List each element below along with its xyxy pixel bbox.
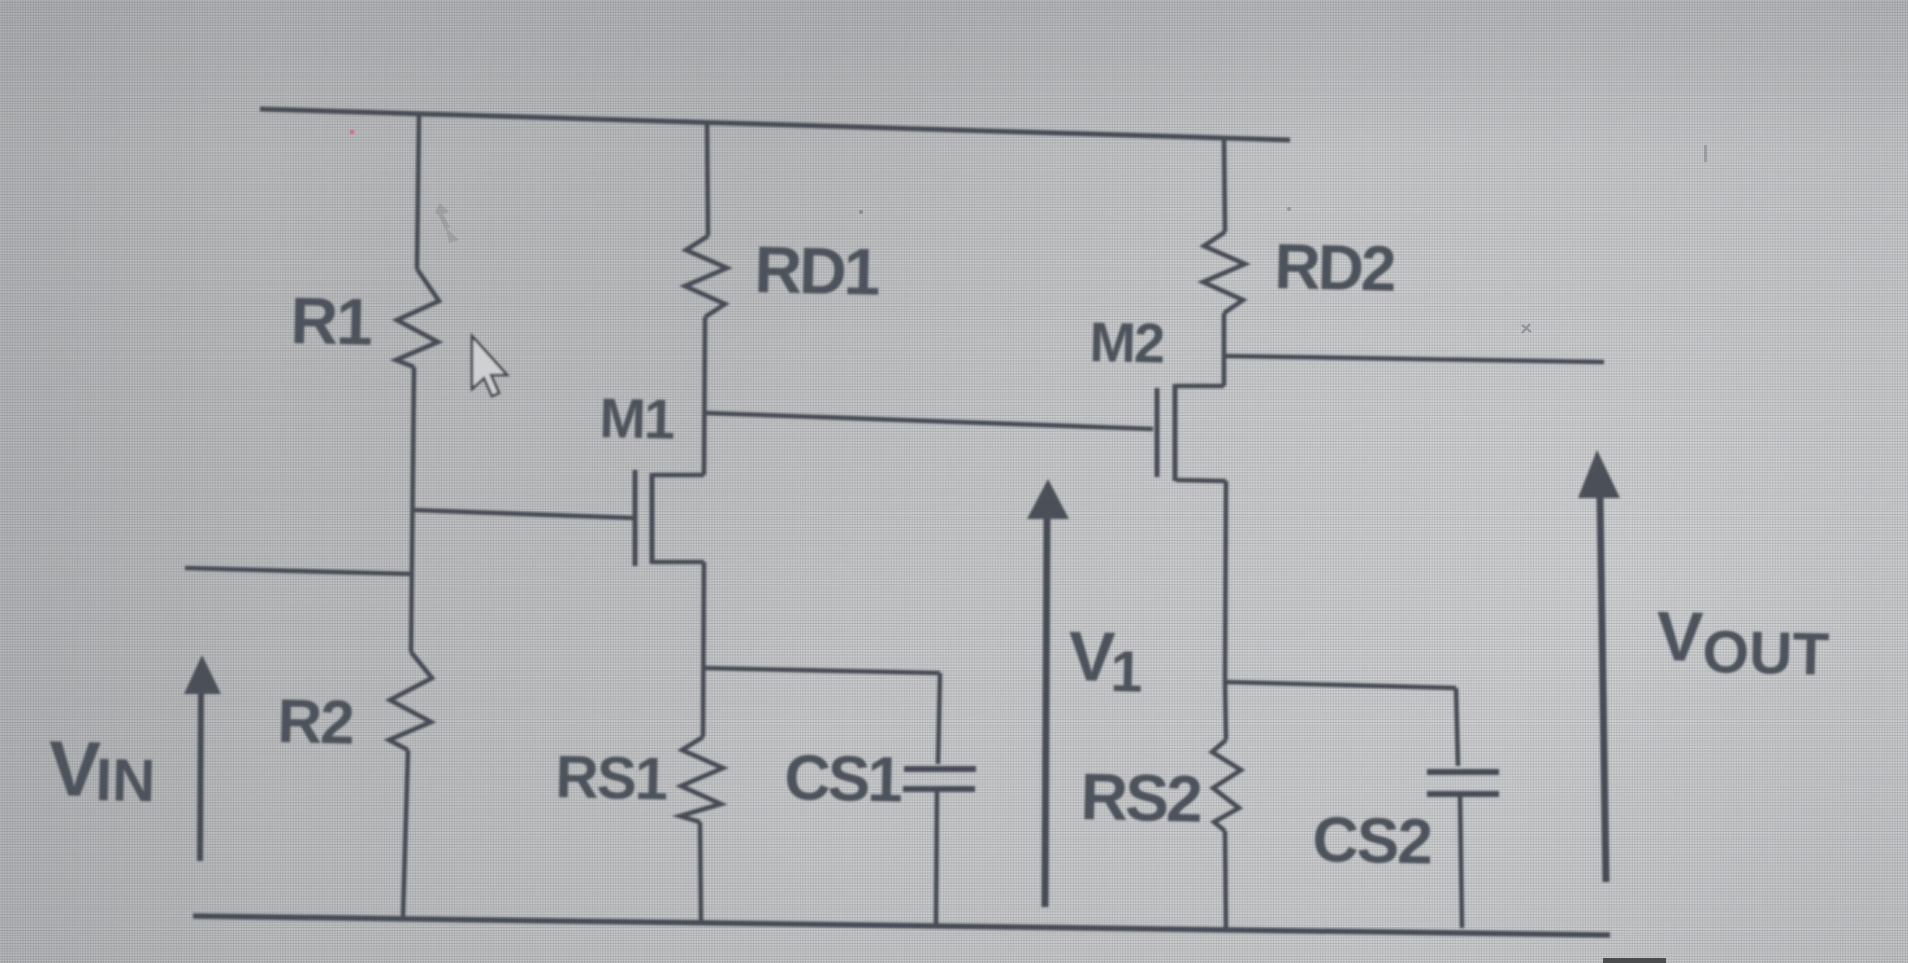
svg-text:M2: M2 [1089, 310, 1164, 375]
svg-text:CS1: CS1 [784, 741, 903, 816]
svg-text:V: V [1656, 597, 1705, 676]
svg-text:IN: IN [95, 746, 157, 814]
svg-text:CS2: CS2 [1312, 803, 1433, 878]
svg-text:R2: R2 [277, 687, 354, 758]
svg-text:RS1: RS1 [555, 743, 668, 813]
svg-text:V: V [1068, 617, 1117, 696]
svg-text:V: V [48, 724, 102, 813]
svg-text:OUT: OUT [1702, 618, 1830, 688]
svg-text:M1: M1 [599, 386, 675, 451]
svg-text:RD2: RD2 [1274, 230, 1396, 305]
svg-text:R1: R1 [290, 283, 372, 359]
svg-text:RD1: RD1 [754, 232, 880, 309]
svg-text:RS2: RS2 [1080, 759, 1202, 836]
svg-text:1: 1 [1110, 639, 1144, 705]
